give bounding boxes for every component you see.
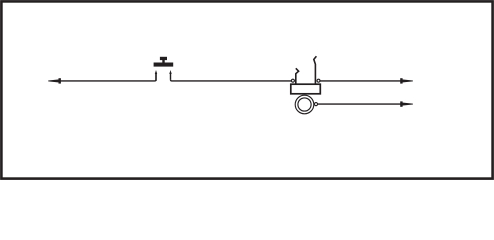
left arrowhead (to supply) xyxy=(48,78,61,83)
bell: left hook wire xyxy=(296,68,299,84)
bell: gong outer rim xyxy=(295,95,314,114)
bell: base box xyxy=(291,84,321,94)
bell: right terminal xyxy=(317,79,320,82)
bottom-right arrowhead xyxy=(400,101,413,106)
bell: right hook wire xyxy=(314,56,317,84)
wire: left lead xyxy=(60,74,156,81)
switch contact posts xyxy=(155,70,172,81)
wire: clapper lead (bottom right) xyxy=(318,103,403,105)
bell: gong inner rim xyxy=(298,98,311,111)
bell: left terminal xyxy=(291,79,294,82)
wire: bell to supply (top right) xyxy=(320,80,402,82)
bell: clapper ball xyxy=(314,103,317,106)
push button actuator (cap, stem, bridge bar) xyxy=(154,57,174,67)
wire: button to bell xyxy=(171,80,292,81)
top-right arrowhead xyxy=(400,78,413,83)
